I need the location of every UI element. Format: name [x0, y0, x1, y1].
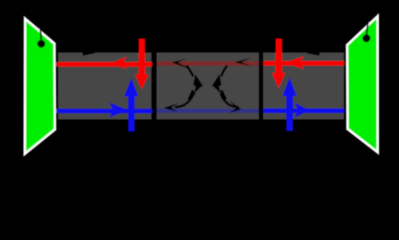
black spin-mix arrowhead on red line (left, points left) — [172, 59, 191, 70]
red vertical down arrow right — [272, 39, 286, 89]
spin-down arrowhead left (points right) — [109, 103, 127, 118]
spin-up arrowhead left (points left) — [111, 57, 127, 70]
spin-up current line left (bright red) — [57, 62, 153, 67]
spin-up arrowhead right (points left) — [285, 56, 304, 69]
left electrode (green plate, white border) — [25, 19, 55, 155]
channel segment middle (gray box 2) — [157, 53, 260, 120]
spin-down current line left (bright blue) — [57, 109, 153, 113]
spin-up current line right (bright red) — [263, 61, 345, 66]
black small head pointing down-left (left cross) — [194, 84, 201, 93]
blue vertical up arrow right — [283, 78, 297, 131]
spin-down current line right (bright blue) — [263, 109, 345, 113]
left contact dot — [37, 40, 45, 48]
blue vertical up arrow left — [124, 78, 138, 131]
right contact dot — [363, 34, 371, 42]
decayed spin-down line middle (dark navy) — [157, 109, 260, 113]
red vertical down arrow left — [135, 39, 149, 90]
black spin-mix arrowhead on red line (right, points left) — [235, 58, 253, 67]
black spin-mix arrowhead on blue line (right, points right) — [228, 100, 241, 113]
channel segment right (gray box 3) — [263, 53, 344, 120]
notch on top edge of left segment — [83, 53, 95, 56]
black up-flow shaft (right cross) — [221, 90, 226, 99]
spin-down arrowhead right (points right) — [294, 103, 308, 118]
black arc leaving red line downward (left) — [187, 66, 194, 77]
notch on top edge of right segment — [307, 53, 320, 56]
black up-flow shaft (left cross) — [189, 90, 194, 99]
black arc descending to blue line (right) — [221, 93, 239, 107]
black arc descending to blue line (left) — [175, 93, 195, 108]
black cursor arrowhead pointing up (right cross) — [212, 74, 222, 87]
black cursor arrowhead pointing up (left cross) — [193, 74, 203, 87]
channel segment left (gray box 1) — [58, 53, 152, 120]
right electrode (green plate, white border) — [347, 16, 378, 153]
black arc leaving red line downward (right) — [221, 66, 227, 77]
black spin-mix arrowhead on blue line (left, points left) — [163, 103, 178, 112]
decayed spin-up line middle (dark red) — [157, 61, 260, 65]
right contact lead line — [367, 18, 369, 35]
black small head pointing down-right (right cross) — [213, 84, 220, 93]
left contact lead line — [40, 14, 42, 40]
